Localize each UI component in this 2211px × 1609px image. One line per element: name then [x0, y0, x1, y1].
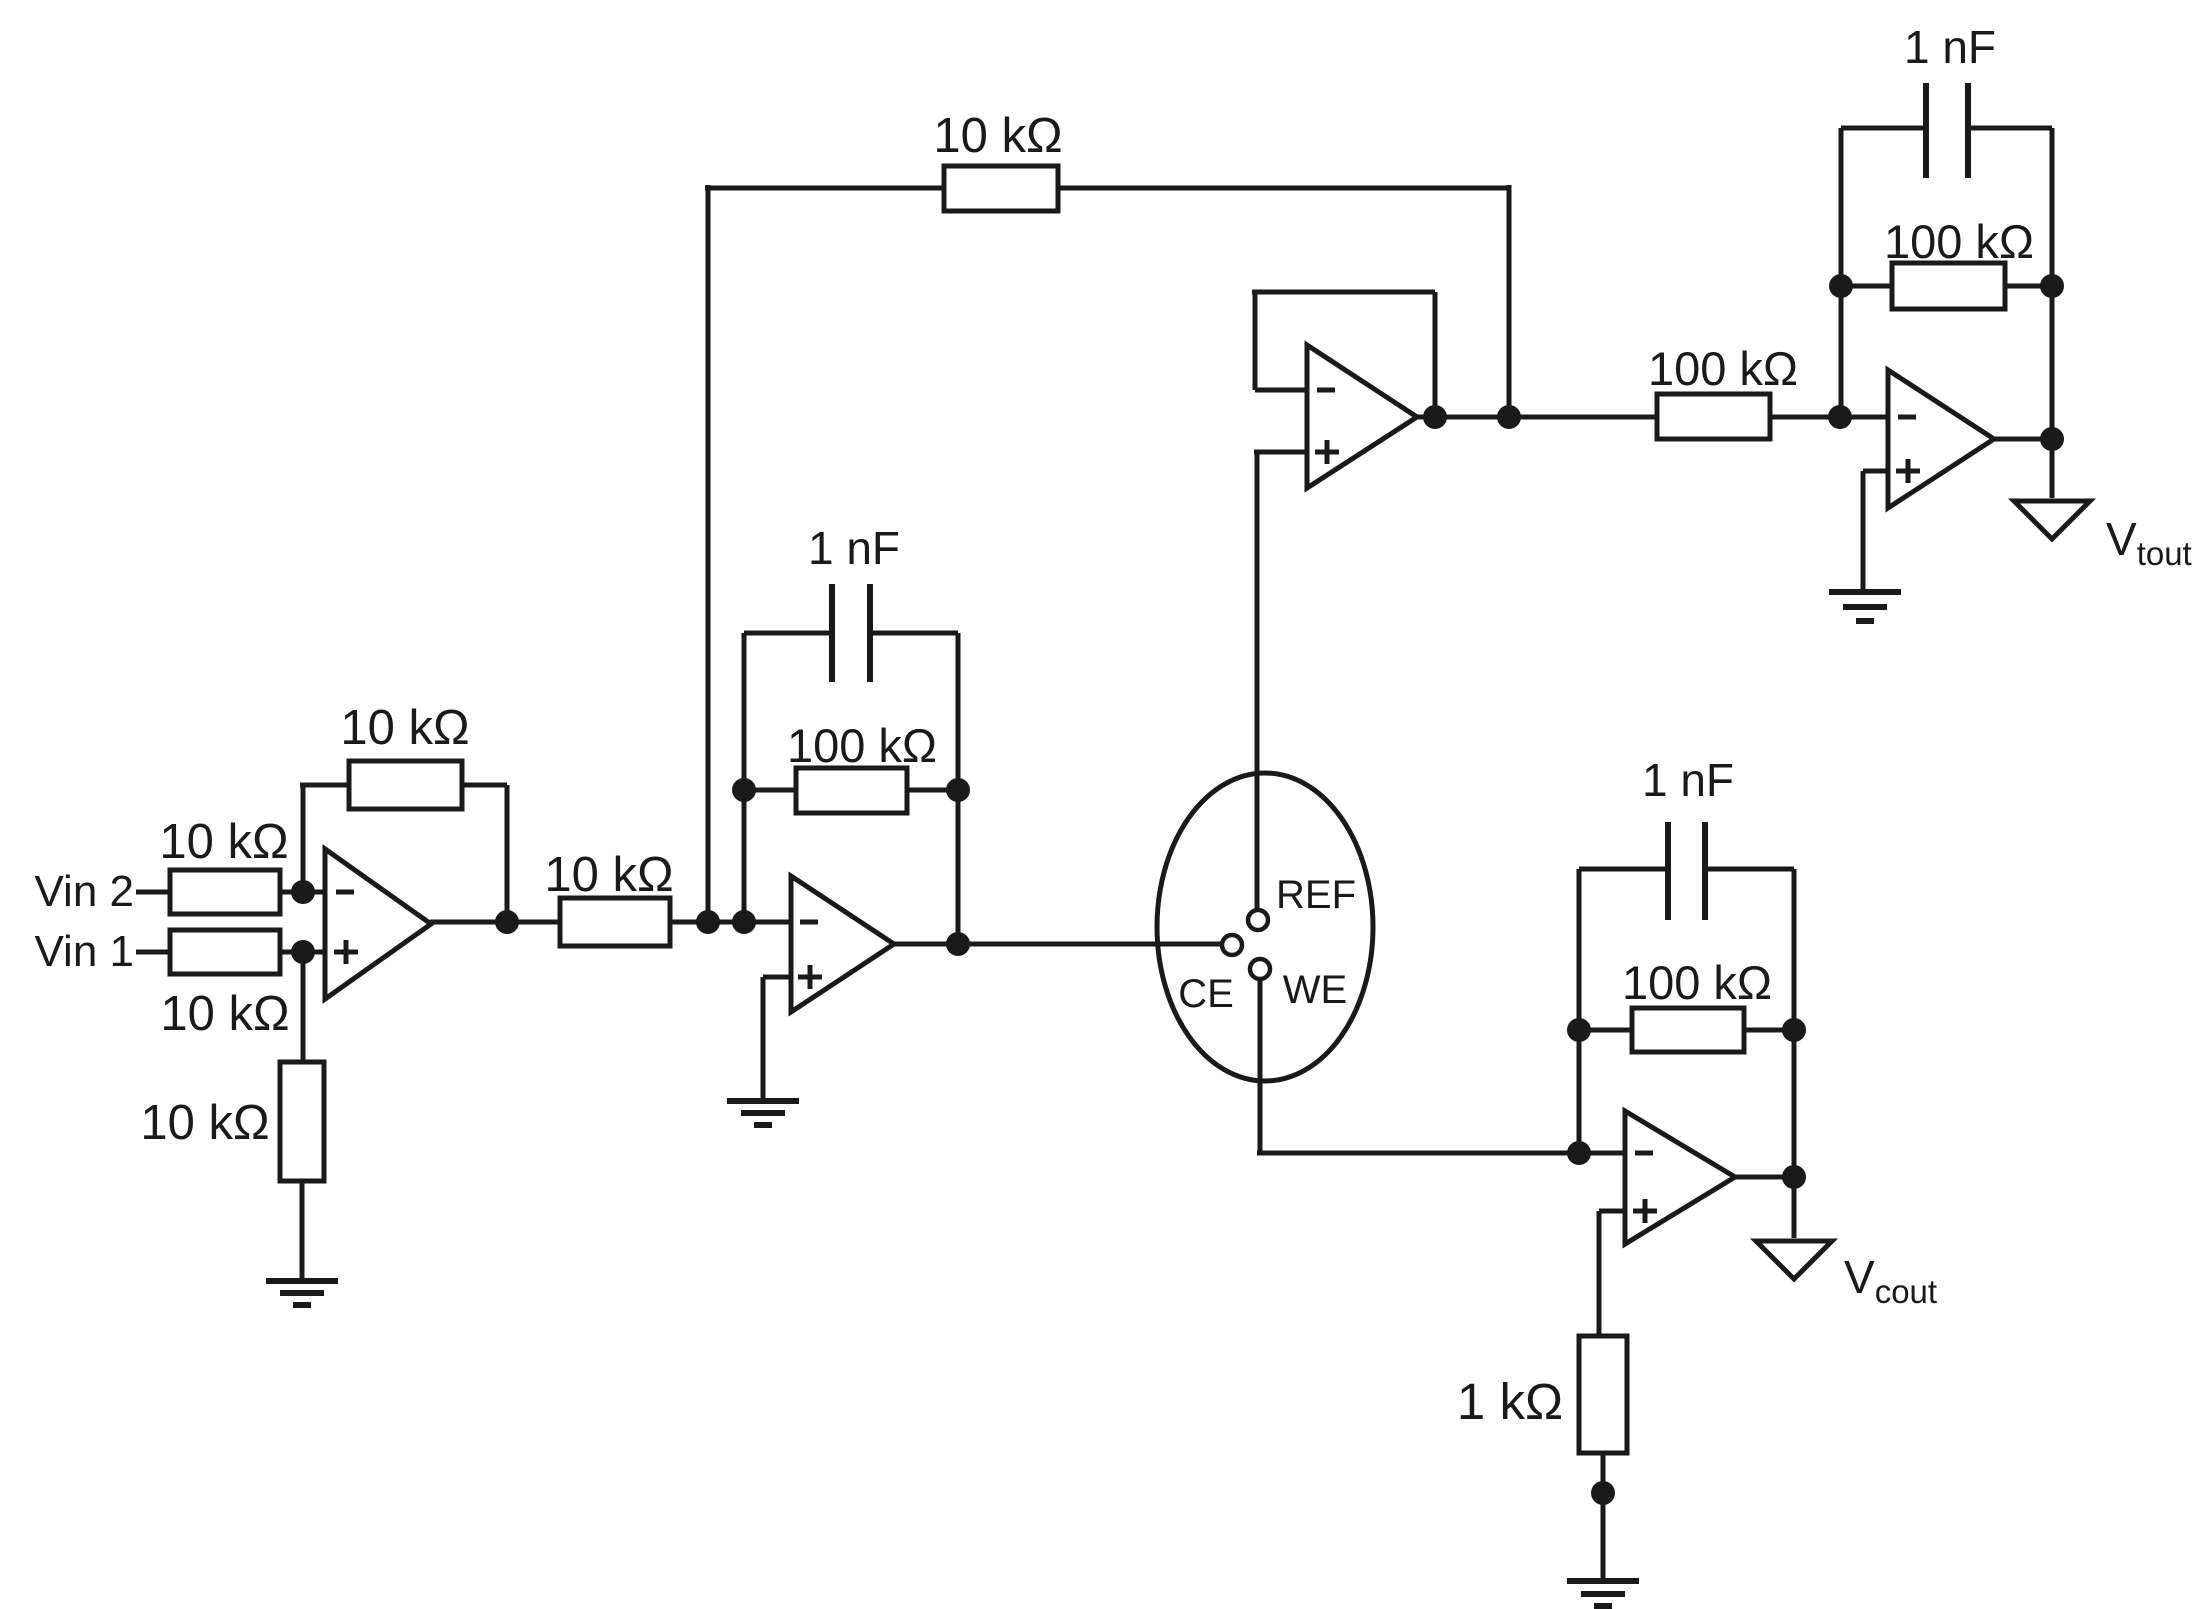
node A junction to top feedback run: [696, 910, 720, 934]
wire WE drop: [1258, 979, 1263, 1153]
wire WE to U4 inverting input: [1257, 1151, 1625, 1156]
wire U2 feedback left branch: [742, 633, 747, 922]
wire top run right: [1058, 186, 1509, 191]
op-amp U1 difference amplifier: [325, 849, 431, 999]
wire R10 to ground: [1601, 1453, 1606, 1581]
wire R9 left lead: [1579, 1028, 1632, 1033]
node R8 right: [2040, 274, 2064, 298]
wire U4 output: [1734, 1175, 1794, 1180]
wire U5 plus elbow vertical: [1861, 471, 1866, 592]
wire U2 plus elbow vertical: [761, 977, 766, 1101]
resistor R2 10 kOhm (Vin 1 input): [170, 930, 280, 974]
output arrow Vcout: [1756, 1241, 1832, 1279]
terminal CE: [1222, 935, 1242, 955]
node R6 left: [732, 778, 756, 802]
svg-text:1 nF: 1 nF: [1642, 754, 1734, 806]
resistor R6 100 kOhm (U2 feedback): [796, 768, 907, 813]
wire R8 right lead: [2005, 284, 2052, 289]
resistor R9 100 kOhm (U4 feedback): [1632, 1008, 1744, 1052]
wire U4 plus elbow horizontal: [1599, 1209, 1625, 1214]
wire buffer plus elbow: [1254, 450, 1307, 455]
U1 minus pin label: [336, 890, 354, 895]
wire R8 left lead: [1841, 284, 1892, 289]
svg-text:10 kΩ: 10 kΩ: [544, 848, 673, 902]
svg-text:Vin 2: Vin 2: [35, 867, 135, 916]
node U5 output: [2040, 427, 2064, 451]
svg-text:100 kΩ: 100 kΩ: [1622, 956, 1772, 1009]
wire R6 left lead: [744, 788, 796, 793]
wire U3 output: [1416, 415, 1657, 420]
output arrow Vtout: [2014, 501, 2090, 539]
svg-text:1 nF: 1 nF: [808, 522, 900, 574]
op-amp U3 voltage follower: [1307, 345, 1417, 488]
node U4 output: [1782, 1165, 1806, 1189]
U2 plus pin label: [798, 965, 822, 989]
resistor R0 10 kOhm (top feedback): [944, 166, 1058, 211]
svg-text:100 kΩ: 100 kΩ: [1648, 342, 1798, 395]
svg-text:CE: CE: [1178, 972, 1234, 1016]
wire Vin2 stub: [136, 890, 170, 895]
ground (under U2 non-inverting input): [727, 1101, 799, 1125]
terminal WE: [1250, 959, 1270, 979]
wire capacitor C2 right lead: [1968, 126, 2052, 131]
wire R2 to U1 non-inverting input: [280, 950, 325, 955]
capacitor C2 1 nF plates: [1926, 83, 1968, 178]
wire buffer feedback right vertical: [1433, 292, 1438, 417]
U3 minus pin label: [1317, 388, 1335, 393]
ground (under U5 non-inverting input): [1829, 592, 1901, 621]
node C top feedback tap: [1497, 405, 1521, 429]
ground (under R10): [1567, 1581, 1639, 1606]
node U1 inverting input: [291, 880, 315, 904]
svg-text:1 nF: 1 nF: [1904, 21, 1996, 73]
node R8 left: [1829, 274, 1853, 298]
U5 minus pin label: [1898, 415, 1916, 420]
resistor R3 10 kOhm (U1 feedback): [349, 761, 462, 809]
resistor R8 100 kOhm (U5 feedback): [1892, 263, 2005, 309]
svg-text:10 kΩ: 10 kΩ: [140, 1096, 269, 1150]
U5 plus pin label: [1896, 459, 1920, 483]
wire buffer minus horizontal: [1255, 388, 1307, 393]
svg-text:10 kΩ: 10 kΩ: [933, 109, 1062, 163]
wire U4 feedback left branch: [1577, 869, 1582, 1153]
capacitor C1 1 nF plates: [832, 584, 870, 682]
wire U2 feedback right branch: [956, 633, 961, 944]
wire U4 feedback right branch: [1792, 869, 1797, 1177]
op-amp U2 control amplifier: [791, 876, 894, 1012]
wire U2 plus elbow horizontal: [763, 975, 791, 980]
svg-text:WE: WE: [1283, 968, 1347, 1012]
wire U2 output to CE: [893, 942, 1222, 947]
wire U1 feedback left horizontal: [300, 783, 349, 788]
wire U5 feedback left branch: [1839, 128, 1844, 417]
wire R7 to U5 inverting input: [1770, 415, 1888, 420]
terminal REF: [1248, 910, 1268, 930]
resistor R5 10 kOhm (series to U2): [560, 898, 670, 946]
svg-text:10 kΩ: 10 kΩ: [340, 701, 469, 755]
ground (left, under R4): [266, 1281, 338, 1305]
wire U5 feedback right branch: [2050, 128, 2055, 439]
wire R4 to ground: [300, 1181, 305, 1281]
wire capacitor C1 right lead: [870, 631, 958, 636]
U4 plus pin label: [1633, 1199, 1657, 1223]
wire capacitor C3 left lead: [1579, 867, 1668, 872]
resistor R1 10 kOhm (Vin 2 input): [170, 870, 280, 914]
node R9 right: [1782, 1018, 1806, 1042]
wire R9 right lead: [1744, 1028, 1794, 1033]
node below R10: [1591, 1481, 1615, 1505]
wire U5 plus elbow horizontal: [1863, 469, 1888, 474]
wire node A vertical riser: [706, 185, 711, 922]
wire U1 feedback right horizontal: [462, 783, 507, 788]
wire U1 feedback right vertical: [505, 785, 510, 922]
wire U5 output down to arrow: [2050, 439, 2055, 498]
wire top run right vertical drop: [1507, 185, 1512, 417]
svg-text:1 kΩ: 1 kΩ: [1457, 1373, 1563, 1430]
wire buffer feedback top: [1252, 290, 1435, 295]
node U2 output: [946, 932, 970, 956]
U1 plus pin label: [334, 940, 358, 964]
wire R1 to U1 inverting input: [280, 890, 325, 895]
node U4 inverting input: [1567, 1141, 1591, 1165]
svg-text:10 kΩ: 10 kΩ: [160, 987, 289, 1041]
wire R5 to U2 inverting input: [670, 920, 791, 925]
wire R6 right lead: [907, 788, 958, 793]
wire top run left: [705, 186, 944, 191]
wire Vin1 stub: [136, 950, 170, 955]
wire U1 output: [430, 920, 560, 925]
node R9 left: [1567, 1018, 1591, 1042]
svg-text:Vin 1: Vin 1: [35, 927, 135, 976]
wire REF riser to buffer: [1255, 452, 1260, 910]
op-amp U5 output amplifier Vtout: [1888, 370, 1994, 508]
U3 plus pin label: [1315, 440, 1339, 464]
svg-text:Vcout: Vcout: [1844, 1251, 1937, 1310]
svg-text:100 kΩ: 100 kΩ: [1884, 215, 2034, 268]
wire U4 output down to arrow: [1792, 1177, 1797, 1238]
node U5 inverting input: [1828, 405, 1852, 429]
U4 minus pin label: [1635, 1151, 1653, 1156]
svg-text:Vtout: Vtout: [2106, 513, 2192, 572]
electrochemical cell ellipse: [1157, 773, 1373, 1081]
resistor R10 1 kOhm: [1579, 1336, 1627, 1453]
node R6 right: [946, 778, 970, 802]
resistor R7 100 kOhm (to U5): [1657, 394, 1770, 439]
svg-text:100 kΩ: 100 kΩ: [787, 719, 937, 772]
node B junction to U2 feedback branch: [732, 910, 756, 934]
node U1 non-inverting input: [291, 940, 315, 964]
wire capacitor C2 left lead: [1841, 126, 1926, 131]
wire buffer feedback left vertical: [1253, 292, 1258, 390]
svg-text:REF: REF: [1276, 873, 1356, 917]
wire U1 feedback left vertical: [301, 785, 306, 892]
U2 minus pin label: [800, 920, 818, 925]
capacitor C3 1 nF plates: [1668, 822, 1705, 920]
wire capacitor C3 right lead: [1705, 867, 1794, 872]
svg-text:10 kΩ: 10 kΩ: [159, 815, 288, 869]
node U1 output: [495, 910, 519, 934]
resistor R4 10 kOhm (to ground): [280, 1062, 324, 1181]
wire U1 plus node down to R4: [301, 952, 306, 1062]
op-amp U4 transimpedance amplifier Vcout: [1625, 1111, 1735, 1244]
wire U5 output: [1993, 437, 2052, 442]
node U3 output: [1423, 405, 1447, 429]
wire U4 plus elbow vertical: [1597, 1211, 1602, 1336]
wire capacitor C1 left lead: [744, 631, 832, 636]
